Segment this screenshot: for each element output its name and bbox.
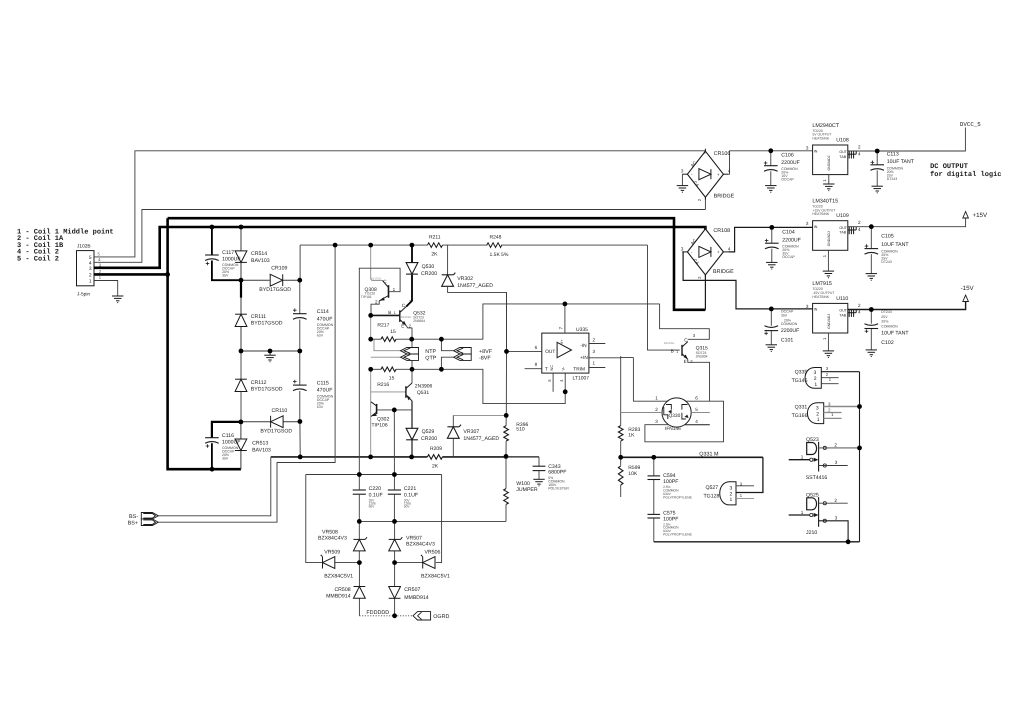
wire bottom rail 542	[654, 518, 860, 541]
svg-text:R209: R209	[430, 446, 442, 452]
wire C117 leads (thick)	[212, 227, 241, 280]
transistor Q525	[801, 492, 838, 536]
capacitor C106	[764, 152, 800, 181]
junction rail457 R396	[504, 454, 509, 459]
svg-text:+IN: +IN	[580, 355, 588, 361]
svg-text:63V: 63V	[317, 405, 324, 409]
wire R396 to rail	[505, 441, 507, 457]
svg-text:1: 1	[676, 350, 678, 354]
svg-text:1N4577_AGED: 1N4577_AGED	[457, 283, 493, 289]
svg-text:3: 3	[681, 169, 684, 174]
regulator U110 LM7915	[806, 281, 861, 340]
svg-text:J-5pin: J-5pin	[77, 291, 90, 297]
wire C106 leads	[770, 151, 772, 186]
junction VR307 top	[504, 413, 509, 418]
svg-text:10UF TANT: 10UF TANT	[881, 242, 909, 248]
svg-text:E: E	[684, 359, 687, 364]
junction bus Q331	[857, 404, 862, 409]
svg-text:R217: R217	[377, 323, 389, 329]
zener VR509	[321, 550, 354, 580]
wire CR110 row	[241, 421, 300, 423]
wire U335 pin7 V+	[564, 304, 566, 333]
junction C220 bottom	[357, 519, 362, 524]
svg-text:4: 4	[858, 151, 861, 156]
capacitor C104	[765, 230, 801, 259]
ground at C104	[766, 262, 777, 269]
svg-text:U335: U335	[576, 327, 588, 333]
wire VR507 leads	[394, 521, 396, 562]
coil pin list text	[17, 228, 114, 264]
svg-text:SST4416: SST4416	[806, 475, 828, 481]
wire U335 pin4 V-	[564, 373, 566, 392]
resistor R211	[428, 234, 443, 257]
svg-text:GND/ADJ: GND/ADJ	[827, 231, 831, 246]
svg-text:1: 1	[393, 287, 396, 292]
capacitor C102	[865, 310, 910, 346]
wire +15V out	[871, 218, 965, 227]
svg-text:1B1C1E: 1B1C1E	[371, 277, 382, 281]
wire U335 pin3 +IN to R283	[589, 356, 621, 425]
svg-text:CR514: CR514	[251, 251, 267, 257]
svg-text:TRIM: TRIM	[573, 367, 585, 373]
svg-text:BAV103: BAV103	[251, 258, 270, 264]
svg-text:3: 3	[806, 304, 809, 309]
junction mid ground	[268, 349, 273, 354]
svg-text:J210: J210	[806, 530, 817, 536]
junction +8VF	[439, 337, 444, 342]
jumper W100	[504, 481, 538, 504]
junction U335 V+	[563, 302, 568, 307]
svg-text:2N3904: 2N3904	[696, 355, 708, 359]
svg-text:2200UF: 2200UF	[782, 237, 800, 243]
svg-text:CR507: CR507	[404, 587, 420, 593]
svg-text:HEATSINK: HEATSINK	[812, 295, 829, 299]
svg-text:470UF: 470UF	[317, 316, 333, 322]
svg-text:CR513: CR513	[252, 441, 268, 447]
ground at C102	[866, 350, 877, 357]
svg-text:C101: C101	[781, 337, 794, 343]
svg-text:50V: 50V	[404, 505, 411, 509]
wire U335 pin8 stub	[525, 368, 542, 370]
wire CR513 leads	[240, 422, 242, 469]
wire VR508 leads	[358, 521, 360, 562]
junction VR507 bottom	[392, 560, 397, 565]
wire Q525 pin3 to rail	[819, 521, 849, 542]
wire U110 out	[848, 309, 872, 311]
svg-text:C106: C106	[781, 152, 794, 158]
wire U109 tab stub	[848, 227, 856, 230]
resistor R599	[618, 457, 640, 497]
svg-text:8: 8	[535, 362, 538, 367]
svg-text:BRIDGE: BRIDGE	[713, 269, 734, 275]
wire mid rail	[241, 350, 300, 352]
junction R217 right	[409, 337, 414, 342]
wire rail 245 (reference rail)	[300, 245, 680, 350]
svg-text:T: T	[545, 367, 548, 373]
junction rail457 Q529	[409, 455, 414, 460]
svg-text:2: 2	[858, 220, 861, 225]
wire right bus	[859, 372, 861, 542]
svg-text:C220: C220	[369, 486, 382, 492]
wire Q302 base row	[377, 409, 412, 411]
svg-text:-15V: -15V	[961, 285, 975, 292]
svg-text:3: 3	[89, 266, 92, 272]
wire C221 leads	[393, 475, 395, 522]
svg-text:GND/ADJ: GND/ADJ	[827, 314, 831, 329]
svg-text:25V: 25V	[881, 315, 888, 319]
bridge rectifier CR108	[681, 226, 734, 279]
svg-text:W100: W100	[516, 481, 530, 487]
resistor R217	[377, 323, 396, 342]
transistor Q308	[361, 277, 396, 305]
svg-text:DT243: DT243	[881, 310, 892, 314]
svg-text:1.5K 5%: 1.5K 5%	[490, 252, 509, 258]
svg-text:C115: C115	[317, 380, 329, 386]
text DC OUTPUT	[930, 163, 1001, 179]
svg-text:CR110: CR110	[272, 408, 288, 414]
regulator U108 LM2940CT	[806, 123, 861, 182]
svg-text:1: 1	[593, 361, 596, 366]
resistor R209	[427, 446, 442, 469]
wire CR109 cathode to rail	[299, 245, 301, 280]
wire VR307 bottom	[452, 438, 454, 457]
wire C102 leads	[870, 310, 872, 350]
svg-text:2: 2	[593, 337, 596, 342]
svg-text:1B1C1E: 1B1C1E	[664, 341, 675, 345]
wire net Q331M rail	[621, 451, 763, 457]
capacitor C575	[648, 510, 693, 536]
svg-text:for digital logic: for digital logic	[930, 170, 1001, 179]
wire VR509 outer leg	[306, 475, 323, 563]
wire Q530 anode (thick)	[411, 245, 413, 263]
wire +8VF tie	[441, 339, 453, 351]
wire Q330 pin5 stub	[691, 412, 710, 414]
ground at C343	[533, 479, 544, 486]
svg-text:OUT: OUT	[839, 309, 847, 313]
svg-text:1K: 1K	[628, 433, 635, 439]
junction Q331M left	[618, 455, 623, 460]
junction pin2 bus	[165, 272, 170, 277]
svg-text:MMBD914: MMBD914	[326, 593, 351, 599]
transistor Q331	[792, 401, 835, 423]
wire U335 pin5 stub	[552, 373, 554, 392]
junction C221 top	[392, 472, 397, 477]
junction C117 top	[210, 225, 215, 230]
svg-text:5 - Coil 2: 5 - Coil 2	[17, 254, 59, 263]
diode CR111	[235, 314, 283, 327]
wire Q331 pin2 stub	[824, 412, 842, 414]
wire Q302 base to C221	[393, 410, 395, 475]
wire BS+ riser	[158, 245, 335, 522]
svg-text:V+: V+	[560, 339, 564, 345]
svg-text:+8VF: +8VF	[479, 349, 493, 355]
svg-text:FDDDDD: FDDDDD	[366, 610, 389, 616]
svg-text:20%: 20%	[881, 320, 888, 324]
svg-text:0.1UF: 0.1UF	[404, 492, 418, 498]
wire R283 bottom	[620, 441, 622, 457]
svg-text:OCCAP: OCCAP	[782, 255, 795, 259]
zener VR307	[447, 425, 499, 442]
wire CR106 pin4 out	[728, 151, 812, 174]
flag -15V	[961, 285, 975, 302]
capacitor C220	[353, 486, 383, 508]
wire CR108 pin2 drop	[704, 275, 706, 310]
svg-text:U109: U109	[836, 213, 849, 219]
junction C106 top	[768, 148, 773, 153]
wire DVCC_5 out	[877, 128, 965, 152]
svg-text:+15V: +15V	[973, 212, 988, 219]
svg-text:TG146: TG146	[792, 378, 808, 384]
wire Q331M to Q527 pin2	[736, 457, 763, 492]
svg-text:Q530: Q530	[422, 264, 435, 270]
svg-text:0.1UF: 0.1UF	[369, 492, 383, 498]
wire Q335 pin2 stub	[821, 377, 838, 379]
wire Q302 vertical	[370, 369, 372, 457]
transistor Q527	[704, 481, 743, 505]
wire VR307 top	[453, 415, 506, 426]
diode CR110	[260, 408, 292, 435]
svg-text:BZX84C4V3: BZX84C4V3	[318, 536, 347, 542]
svg-text:BRIDGE: BRIDGE	[714, 194, 735, 200]
svg-text:35V: 35V	[222, 274, 229, 278]
svg-text:C117: C117	[222, 250, 234, 256]
junction rail245 Q530	[410, 243, 415, 248]
svg-text:OUT: OUT	[839, 226, 847, 230]
wire Q308 base loop	[359, 268, 400, 474]
wire pin5 to CR106 AC (coil 1 middle)	[94, 151, 705, 257]
wire Q532 emitter drop	[406, 326, 412, 340]
wire Q523 pin1	[789, 459, 810, 461]
svg-text:OUT: OUT	[839, 150, 847, 154]
wire OUT node vertical	[505, 292, 507, 425]
svg-text:2: 2	[375, 299, 378, 304]
wire VR506 outer leg	[436, 475, 442, 563]
wire U335 pin2 stub	[589, 343, 605, 345]
diode CR112	[235, 379, 283, 392]
wire -8VF tie	[441, 357, 453, 369]
ground at CR106	[677, 186, 688, 193]
wire net FDDDDD dashed	[359, 610, 394, 616]
svg-text:3: 3	[806, 221, 809, 226]
wire U110 pin1 gnd	[827, 333, 829, 351]
wire Q527 pin1 stub	[736, 497, 754, 499]
wire Q335 pin1 stub	[821, 383, 838, 385]
svg-text:50V: 50V	[369, 505, 376, 509]
junction CR507 bottom	[392, 613, 397, 618]
net label DVCC_5	[960, 121, 981, 128]
svg-text:C113: C113	[887, 152, 899, 158]
svg-text:BYD17GSOD: BYD17GSOD	[260, 428, 292, 434]
flag QTP	[401, 354, 437, 362]
ground at U110	[823, 351, 834, 358]
flag +15V	[963, 212, 988, 219]
wire CR106 pin2 drop	[704, 198, 706, 210]
wire C113 leads	[876, 151, 878, 186]
svg-text:2: 2	[655, 407, 658, 412]
ground at C106	[765, 186, 776, 193]
svg-text:63V: 63V	[317, 334, 324, 338]
svg-text:3: 3	[593, 349, 596, 354]
junction C113 top	[875, 149, 880, 154]
svg-text:10UF TANT: 10UF TANT	[881, 331, 909, 337]
svg-text:CR508: CR508	[334, 587, 350, 593]
svg-text:C102: C102	[881, 340, 894, 346]
svg-text:R216: R216	[377, 382, 389, 388]
svg-text:2: 2	[858, 303, 861, 308]
transistor Q523	[801, 437, 838, 481]
svg-text:-IN: -IN	[580, 343, 587, 349]
svg-text:QTP: QTP	[425, 356, 436, 362]
svg-text:VR506: VR506	[425, 550, 441, 556]
svg-text:3: 3	[806, 145, 809, 150]
wire U335 pin1 stub	[589, 367, 605, 369]
svg-text:TIP106: TIP106	[372, 423, 388, 429]
wire OGRD dashed	[395, 615, 413, 617]
wire CR106 pin3 gnd	[681, 174, 683, 185]
svg-text:2200UF: 2200UF	[781, 328, 799, 334]
wire Q525 pin1	[789, 514, 810, 516]
wire top bus to CR108 loop (thick)	[168, 218, 706, 310]
svg-text:BYD17GSOD: BYD17GSOD	[251, 387, 283, 393]
junction rail245 Q308	[368, 243, 373, 248]
wire VR302 bottom to OUT node	[448, 286, 507, 351]
ground at U109	[823, 271, 834, 278]
svg-text:35V: 35V	[222, 456, 229, 460]
svg-text:NC: NC	[550, 365, 554, 371]
svg-text:BZX84C4V3: BZX84C4V3	[406, 542, 435, 548]
wire Q531 emitter down	[411, 401, 413, 429]
svg-text:CR106: CR106	[714, 151, 731, 157]
junction CR514 bottom	[239, 278, 244, 283]
ground at C105	[866, 274, 877, 281]
wire C105 leads	[870, 227, 872, 274]
svg-text:BZX84C5V1: BZX84C5V1	[421, 573, 450, 579]
zener VR506	[421, 550, 450, 580]
svg-text:J102B: J102B	[77, 243, 91, 249]
wire QTP tie	[371, 356, 401, 358]
svg-text:6800PF: 6800PF	[548, 469, 566, 475]
wire Q330 pin6 loop to pin3	[645, 401, 724, 442]
svg-text:BYD17GSOD: BYD17GSOD	[259, 287, 291, 293]
junction C116 bottom	[210, 467, 215, 472]
wire BS- riser	[158, 457, 270, 516]
svg-text:HEATSINK: HEATSINK	[812, 136, 829, 140]
svg-text:POLYPROPYLENE: POLYPROPYLENE	[663, 495, 693, 499]
svg-text:5: 5	[89, 255, 92, 261]
junction CR111 bottom	[239, 349, 244, 354]
wire Q523 pin3	[819, 465, 848, 467]
svg-text:VR509: VR509	[324, 550, 340, 556]
svg-text:R599: R599	[628, 465, 640, 471]
capacitor C105	[865, 234, 910, 264]
op-amp U335	[535, 327, 596, 382]
svg-text:BAV103: BAV103	[252, 447, 271, 453]
junction C105 top	[869, 224, 874, 229]
svg-text:TAB: TAB	[839, 155, 846, 159]
svg-text:1: 1	[814, 382, 817, 388]
svg-text:2: 2	[834, 498, 837, 503]
svg-text:3: 3	[835, 516, 838, 521]
svg-text:Q330: Q330	[669, 413, 681, 419]
capacitor C101	[764, 309, 799, 343]
wire -15V out	[871, 302, 965, 310]
junction -8VF	[439, 367, 444, 372]
zener VR302	[442, 273, 494, 289]
svg-text:COMMON: COMMON	[781, 322, 798, 326]
svg-text:2K: 2K	[431, 252, 438, 258]
resistor R216	[377, 367, 396, 388]
svg-text:U110: U110	[836, 296, 848, 302]
resistor R248	[487, 234, 509, 258]
svg-text:Q525: Q525	[806, 492, 819, 498]
svg-text:Q335: Q335	[795, 370, 808, 376]
resistor R283	[618, 426, 640, 442]
svg-text:DVCC_5: DVCC_5	[960, 121, 981, 128]
wire U108 tab stub	[848, 151, 856, 154]
svg-text:Q529: Q529	[422, 429, 435, 435]
svg-text:3: 3	[681, 246, 684, 251]
svg-text:Q331: Q331	[795, 405, 808, 411]
wire U108 out	[848, 150, 877, 152]
svg-text:1000UF: 1000UF	[222, 257, 240, 263]
svg-text:+: +	[717, 172, 720, 177]
svg-text:DT243: DT243	[887, 177, 898, 181]
svg-text:TG166: TG166	[792, 413, 808, 419]
ground at C101	[766, 345, 777, 352]
capacitor C594	[648, 473, 693, 499]
junction C104 top	[769, 225, 774, 230]
junction C102 top	[869, 307, 874, 312]
wire Q330 pin2	[621, 412, 662, 414]
wire CR514 leads	[240, 227, 242, 280]
transistor Q315	[664, 333, 708, 364]
svg-text:510: 510	[516, 427, 525, 433]
svg-text:CR109: CR109	[271, 266, 287, 272]
svg-text:1: 1	[89, 279, 92, 285]
wire C594 top	[653, 457, 655, 475]
transistor Q531	[406, 383, 433, 401]
wire Q530 cathode to Q532 collector (thick)	[406, 275, 412, 307]
svg-text:BS-: BS-	[129, 514, 138, 520]
junction CR514 top	[239, 225, 244, 230]
wire U110 tab stub	[848, 310, 856, 313]
svg-text:IN: IN	[814, 225, 818, 229]
svg-text:Q531: Q531	[417, 390, 429, 396]
svg-text:HEATSINK: HEATSINK	[812, 212, 829, 216]
svg-text:POLYESTER: POLYESTER	[548, 486, 569, 490]
svg-text:3: 3	[655, 419, 658, 424]
connector J102B	[77, 243, 102, 297]
svg-text:1N4577_AGED: 1N4577_AGED	[463, 436, 499, 442]
wire C594 to C575	[653, 480, 655, 514]
flag +8VF	[454, 348, 493, 355]
svg-text:U108: U108	[836, 138, 849, 144]
svg-text:Q527: Q527	[706, 485, 719, 491]
flag BS-	[129, 513, 158, 521]
wire VR506 row	[395, 562, 423, 564]
wire U108 pin1 gnd	[828, 175, 830, 184]
diode CR508	[326, 587, 365, 600]
zener VR507	[389, 535, 435, 551]
wire Q532 emitter to R216 node	[411, 339, 413, 369]
wire Q523 pin2	[819, 447, 860, 449]
junction bottom rail Q525	[846, 539, 851, 544]
svg-text:+: +	[717, 250, 720, 255]
svg-text:1: 1	[801, 455, 804, 460]
capacitor C113	[870, 152, 914, 182]
svg-text:6: 6	[695, 396, 698, 401]
wire C116 leads (thick)	[212, 422, 241, 469]
